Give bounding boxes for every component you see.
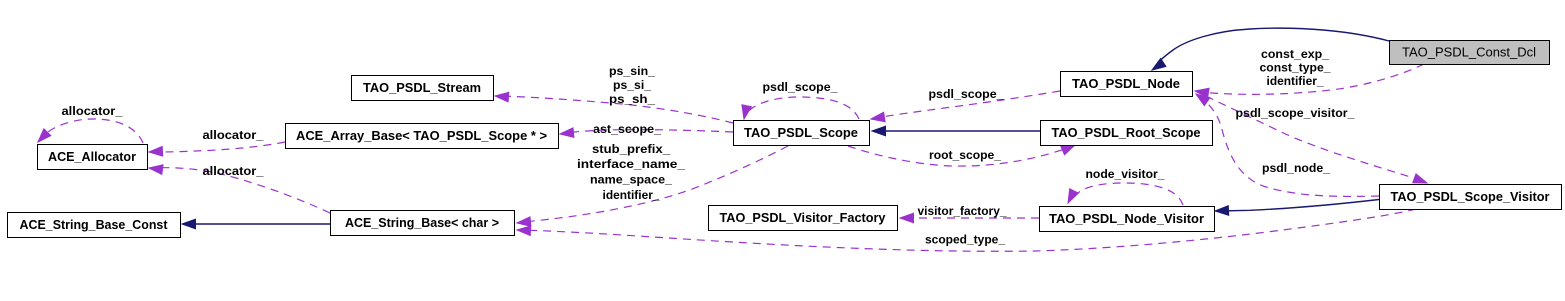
edge visitor_factory_ from TAO_PSDL_Node_Visitor to TAO_PSDL_Visitor_Factory (900, 213, 1039, 223)
class box TAO_PSDL_Stream (352, 76, 494, 101)
svg-text:ACE_String_Base< char >: ACE_String_Base< char > (345, 216, 499, 230)
svg-text:psdl_node_: psdl_node_ (1262, 161, 1330, 175)
svg-text:ps_si_: ps_si_ (613, 78, 651, 92)
svg-text:visitor_factory_: visitor_factory_ (918, 204, 1007, 218)
class box ACE_String_Base_char (331, 211, 515, 236)
svg-text:interface_name_: interface_name_ (577, 157, 685, 171)
class box TAO_PSDL_Visitor_Factory (709, 206, 898, 231)
class box ACE_Allocator (38, 145, 148, 170)
edge allocator_ from ACE_Array_Base to ACE_Allocator (149, 142, 285, 156)
edge ps_sin_ ps_si_ ps_sh_ from TAO_PSDL_Scope to TAO_PSDL_Stream (495, 92, 733, 123)
svg-text:ps_sh_: ps_sh_ (609, 92, 655, 106)
svg-text:identifier_: identifier_ (603, 188, 660, 202)
edge psdl_scope_ from TAO_PSDL_Node to TAO_PSDL_Scope (871, 91, 1060, 122)
svg-text:TAO_PSDL_Root_Scope: TAO_PSDL_Root_Scope (1052, 126, 1201, 140)
svg-text:ACE_Array_Base< TAO_PSDL_Scope: ACE_Array_Base< TAO_PSDL_Scope * > (296, 129, 547, 143)
class box TAO_PSDL_Const_Dcl (1390, 41, 1550, 65)
svg-text:TAO_PSDL_Node_Visitor: TAO_PSDL_Node_Visitor (1049, 212, 1204, 226)
edge stub_prefix_ interface_name_ name_space_ identifier_ from TAO_PSDL_Scope to ACE_String_Base (517, 146, 788, 226)
svg-text:allocator_: allocator_ (203, 128, 264, 142)
edge inheritance TAO_PSDL_Root_Scope to TAO_PSDL_Scope (872, 126, 1040, 136)
svg-text:scoped_type_: scoped_type_ (925, 233, 1005, 247)
svg-text:const_exp_: const_exp_ (1261, 47, 1329, 61)
svg-text:identifier_: identifier_ (1267, 74, 1324, 88)
class box TAO_PSDL_Node (1061, 72, 1193, 97)
edge scoped_type_ from TAO_PSDL_Scope_Visitor to ACE_String_Base (517, 209, 1416, 251)
svg-text:ps_sin_: ps_sin_ (609, 64, 655, 78)
svg-text:allocator_: allocator_ (62, 104, 123, 118)
edge psdl_node_ from TAO_PSDL_Scope_Visitor to TAO_PSDL_Node (1196, 94, 1379, 196)
class box TAO_PSDL_Scope_Visitor (1380, 185, 1562, 210)
class box TAO_PSDL_Node_Visitor (1040, 207, 1215, 232)
svg-text:psdl_scope_: psdl_scope_ (763, 80, 838, 94)
svg-text:root_scope_: root_scope_ (929, 148, 1001, 162)
svg-text:const_type_: const_type_ (1260, 61, 1331, 75)
svg-text:TAO_PSDL_Stream: TAO_PSDL_Stream (363, 81, 481, 95)
edge root_scope_ from TAO_PSDL_Scope to TAO_PSDL_Root_Scope (848, 145, 1075, 166)
edge node_visitor_ self-loop on TAO_PSDL_Node_Visitor (1068, 183, 1183, 205)
svg-text:ACE_String_Base_Const: ACE_String_Base_Const (20, 218, 169, 232)
svg-text:TAO_PSDL_Node: TAO_PSDL_Node (1072, 77, 1180, 91)
edge ast_scope_ from TAO_PSDL_Scope to ACE_Array_Base (560, 128, 733, 137)
svg-text:TAO_PSDL_Const_Dcl: TAO_PSDL_Const_Dcl (1402, 45, 1536, 60)
edge allocator_ self-loop on ACE_Allocator (38, 119, 143, 143)
class box TAO_PSDL_Root_Scope (1041, 121, 1213, 146)
edge psdl_scope_visitor_ from TAO_PSDL_Node to TAO_PSDL_Scope_Visitor (1206, 96, 1427, 183)
edge inheritance TAO_PSDL_Scope_Visitor to TAO_PSDL_Node_Visitor (1215, 200, 1379, 216)
svg-text:TAO_PSDL_Visitor_Factory: TAO_PSDL_Visitor_Factory (720, 211, 886, 225)
edge inheritance ACE_String_Base to ACE_String_Base_Const (182, 219, 330, 229)
class box ACE_String_Base_Const (8, 213, 181, 238)
svg-text:psdl_scope_: psdl_scope_ (929, 87, 1004, 101)
svg-text:allocator_: allocator_ (203, 164, 264, 178)
svg-text:node_visitor_: node_visitor_ (1086, 167, 1165, 181)
svg-text:TAO_PSDL_Scope_Visitor: TAO_PSDL_Scope_Visitor (1391, 190, 1550, 204)
svg-text:ACE_Allocator: ACE_Allocator (48, 150, 136, 164)
class box ACE_Array_Base (286, 124, 559, 149)
svg-text:ast_scope_: ast_scope_ (593, 122, 661, 136)
edge psdl_scope_ self-loop on TAO_PSDL_Scope (742, 97, 859, 119)
svg-text:name_space_: name_space_ (590, 173, 672, 187)
svg-text:stub_prefix_: stub_prefix_ (592, 142, 670, 156)
edge inheritance TAO_PSDL_Const_Dcl to TAO_PSDL_Node (1152, 28, 1389, 70)
class box TAO_PSDL_Scope (734, 121, 870, 146)
edge const_exp_ const_type_ identifier_ from TAO_PSDL_Const_Dcl to TAO_PSDL_Node (1195, 64, 1424, 98)
svg-text:TAO_PSDL_Scope: TAO_PSDL_Scope (744, 126, 858, 140)
svg-text:psdl_scope_visitor_: psdl_scope_visitor_ (1236, 106, 1355, 120)
edge allocator_ from ACE_String_Base to ACE_Allocator (149, 165, 330, 213)
